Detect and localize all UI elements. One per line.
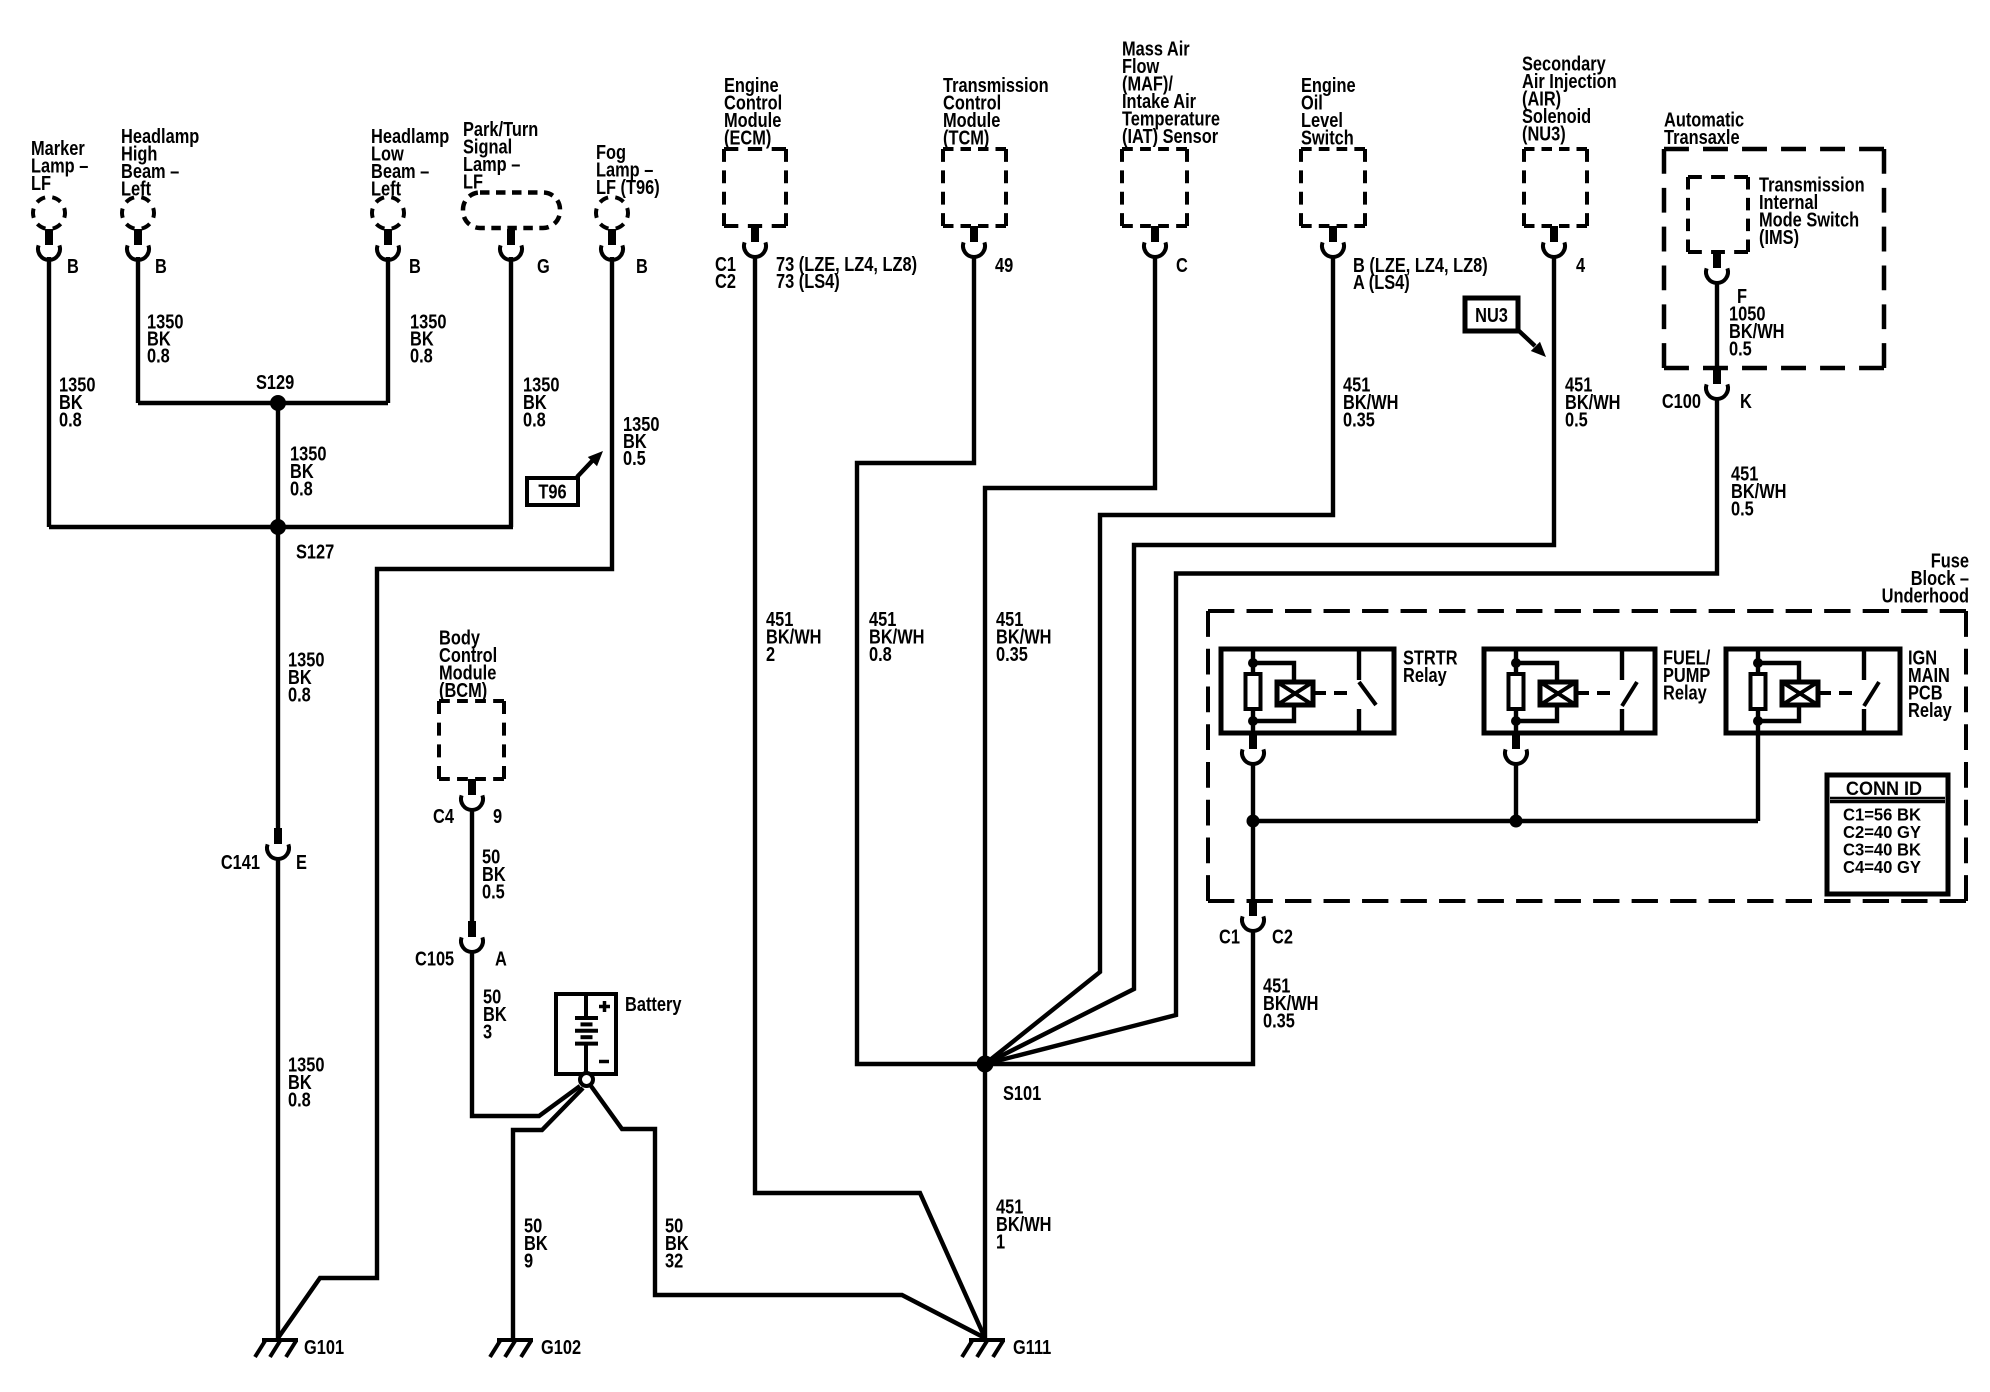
svg-text:0.5: 0.5 (1731, 497, 1754, 520)
svg-text:Relay: Relay (1403, 663, 1447, 686)
svg-text:0.8: 0.8 (869, 642, 892, 665)
svg-text:G: G (537, 254, 550, 277)
svg-text:C105: C105 (415, 947, 454, 970)
svg-text:S127: S127 (296, 540, 334, 563)
svg-text:(IAT) Sensor: (IAT) Sensor (1122, 124, 1218, 147)
svg-text:G101: G101 (304, 1335, 344, 1358)
svg-text:0.35: 0.35 (1263, 1009, 1295, 1032)
svg-text:A (LS4): A (LS4) (1353, 270, 1410, 293)
svg-text:0.35: 0.35 (996, 642, 1028, 665)
svg-text:0.8: 0.8 (290, 477, 313, 500)
svg-text:32: 32 (665, 1249, 683, 1272)
svg-text:0.5: 0.5 (1729, 337, 1752, 360)
svg-text:C2: C2 (1272, 925, 1293, 948)
svg-text:C: C (1176, 253, 1188, 276)
svg-text:S129: S129 (256, 370, 294, 393)
svg-text:3: 3 (483, 1020, 492, 1043)
svg-text:C1: C1 (1219, 925, 1240, 948)
svg-text:C141: C141 (221, 850, 260, 873)
svg-text:(ECM): (ECM) (724, 126, 771, 149)
svg-text:Underhood: Underhood (1882, 584, 1969, 607)
svg-text:Relay: Relay (1908, 698, 1952, 721)
svg-text:9: 9 (524, 1249, 533, 1272)
svg-text:2: 2 (766, 642, 775, 665)
svg-text:E: E (296, 850, 307, 873)
svg-text:G111: G111 (1013, 1335, 1051, 1358)
svg-text:(NU3): (NU3) (1522, 122, 1566, 145)
svg-text:T96: T96 (538, 480, 566, 503)
svg-text:C2: C2 (715, 269, 736, 292)
svg-text:Relay: Relay (1663, 681, 1707, 704)
svg-text:Battery: Battery (625, 992, 682, 1015)
svg-text:K: K (1740, 389, 1753, 412)
svg-text:S101: S101 (1003, 1081, 1041, 1104)
svg-text:Transaxle: Transaxle (1664, 125, 1740, 148)
svg-text:1: 1 (996, 1230, 1005, 1253)
svg-text:9: 9 (493, 804, 502, 827)
svg-text:(BCM): (BCM) (439, 678, 487, 701)
svg-text:0.8: 0.8 (523, 408, 546, 431)
svg-text:C4=40 GY: C4=40 GY (1843, 858, 1922, 877)
svg-text:0.8: 0.8 (147, 344, 170, 367)
svg-text:Switch: Switch (1301, 126, 1354, 149)
svg-text:(IMS): (IMS) (1759, 225, 1799, 248)
svg-text:B: B (409, 254, 421, 277)
svg-text:NU3: NU3 (1475, 303, 1508, 326)
svg-text:A: A (495, 947, 507, 970)
svg-text:LF: LF (463, 170, 483, 193)
svg-text:4: 4 (1576, 253, 1586, 276)
svg-text:C4: C4 (433, 804, 455, 827)
svg-text:0.8: 0.8 (288, 1088, 311, 1111)
svg-text:0.35: 0.35 (1343, 408, 1375, 431)
svg-text:(TCM): (TCM) (943, 126, 989, 149)
svg-text:B: B (67, 254, 79, 277)
svg-text:B: B (636, 254, 648, 277)
svg-text:Left: Left (121, 177, 151, 200)
svg-text:Left: Left (371, 177, 401, 200)
svg-text:G102: G102 (541, 1335, 581, 1358)
svg-text:LF (T96): LF (T96) (596, 175, 660, 198)
svg-text:0.8: 0.8 (288, 683, 311, 706)
svg-text:49: 49 (995, 253, 1013, 276)
svg-text:0.8: 0.8 (410, 344, 433, 367)
svg-text:B: B (155, 254, 167, 277)
svg-text:0.5: 0.5 (482, 880, 505, 903)
svg-text:0.8: 0.8 (59, 408, 82, 431)
svg-text:CONN ID: CONN ID (1846, 778, 1922, 800)
svg-text:0.5: 0.5 (1565, 408, 1588, 431)
svg-text:LF: LF (31, 171, 51, 194)
svg-text:0.5: 0.5 (623, 446, 646, 469)
svg-text:C100: C100 (1662, 389, 1701, 412)
svg-text:73 (LS4): 73 (LS4) (776, 269, 840, 292)
